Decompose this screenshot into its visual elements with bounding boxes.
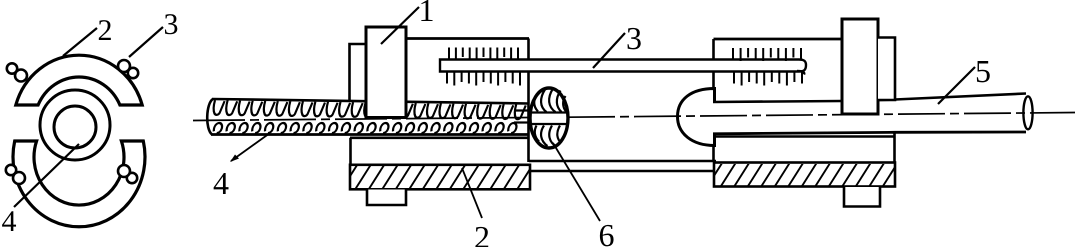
leader to 2 base — [462, 168, 482, 218]
leader to 2 — [63, 28, 97, 56]
screw bolt top-left — [7, 63, 17, 73]
screw bolt bottom-right — [127, 173, 137, 183]
screw bolt 3 top-right — [128, 68, 138, 78]
label 4 screw — [213, 165, 229, 201]
lead screw left end cap — [207, 99, 213, 135]
lead screw thread loops lower row — [213, 123, 223, 133]
split nut lower half — [13, 141, 145, 227]
right foot — [844, 187, 880, 207]
spring ticks left group above rod 3 — [448, 48, 450, 59]
rod 5 dome end — [678, 89, 715, 146]
svg-text:1: 1 — [419, 0, 435, 28]
bore hole 4 — [54, 106, 96, 148]
leader to 6 — [553, 143, 600, 221]
right housing top edge — [714, 38, 844, 41]
right housing bore bottom line — [714, 135, 895, 138]
svg-text:3: 3 — [164, 8, 179, 41]
svg-text:2: 2 — [98, 14, 113, 47]
left housing 2 top edge — [404, 37, 529, 40]
screw shank lines into ball — [514, 109, 531, 111]
label 2 — [98, 14, 113, 47]
right step block — [878, 38, 895, 101]
left housing bore bottom line — [350, 137, 528, 140]
ball 6 thread pattern — [531, 89, 568, 147]
label 1 — [419, 0, 435, 28]
svg-text:4: 4 — [2, 205, 17, 238]
label 5 — [975, 53, 991, 89]
clamp block on right housing — [842, 19, 878, 114]
spring ticks right group above rod 3 — [732, 48, 734, 59]
svg-text:3: 3 — [626, 20, 642, 56]
spring ticks right group below rod 3 — [733, 73, 735, 84]
center axis line right part — [568, 113, 1075, 118]
svg-text:5: 5 — [975, 53, 991, 89]
spring ticks left group below rod 3 — [446, 73, 448, 84]
leader to 4 — [14, 144, 79, 207]
center axis line left part — [193, 118, 529, 121]
leader to 1 — [381, 7, 419, 44]
right housing right wall lower — [893, 132, 896, 186]
leader to 3 — [129, 27, 163, 57]
screw bolt bottom-left — [6, 165, 16, 175]
label 2 base — [474, 219, 490, 247]
split nut upper half 2 — [16, 55, 142, 105]
leader to 4 screw — [231, 133, 270, 161]
left housing hatched base — [350, 165, 530, 190]
push rod 5 — [713, 94, 1026, 134]
left housing left step block — [350, 44, 368, 101]
right housing left wall — [712, 39, 715, 162]
svg-text:6: 6 — [599, 217, 615, 247]
label 4 — [2, 205, 17, 238]
tie rod between housings lower line — [529, 170, 716, 172]
left housing left wall lower — [349, 138, 352, 188]
left housing right wall — [527, 39, 530, 163]
label 6 — [599, 217, 615, 247]
label 3 rod — [626, 20, 642, 56]
label 3 — [164, 8, 179, 41]
leader to 5 — [938, 67, 975, 104]
ball 6 body — [530, 88, 568, 148]
lead screw thread loops upper row — [212, 100, 525, 119]
rod 5 end cap — [1023, 96, 1032, 129]
clamp block 1 on left housing — [366, 27, 406, 118]
svg-text:2: 2 — [474, 219, 490, 247]
screw shank section — [40, 90, 110, 160]
right housing hatched base — [714, 163, 895, 187]
tie rod between housings upper line — [529, 160, 716, 162]
lead screw rod 4 outline — [212, 99, 528, 135]
leader to 3 rod — [593, 33, 625, 68]
adjusting rod 3 — [440, 60, 806, 72]
svg-text:4: 4 — [213, 165, 229, 201]
left foot — [367, 190, 406, 206]
